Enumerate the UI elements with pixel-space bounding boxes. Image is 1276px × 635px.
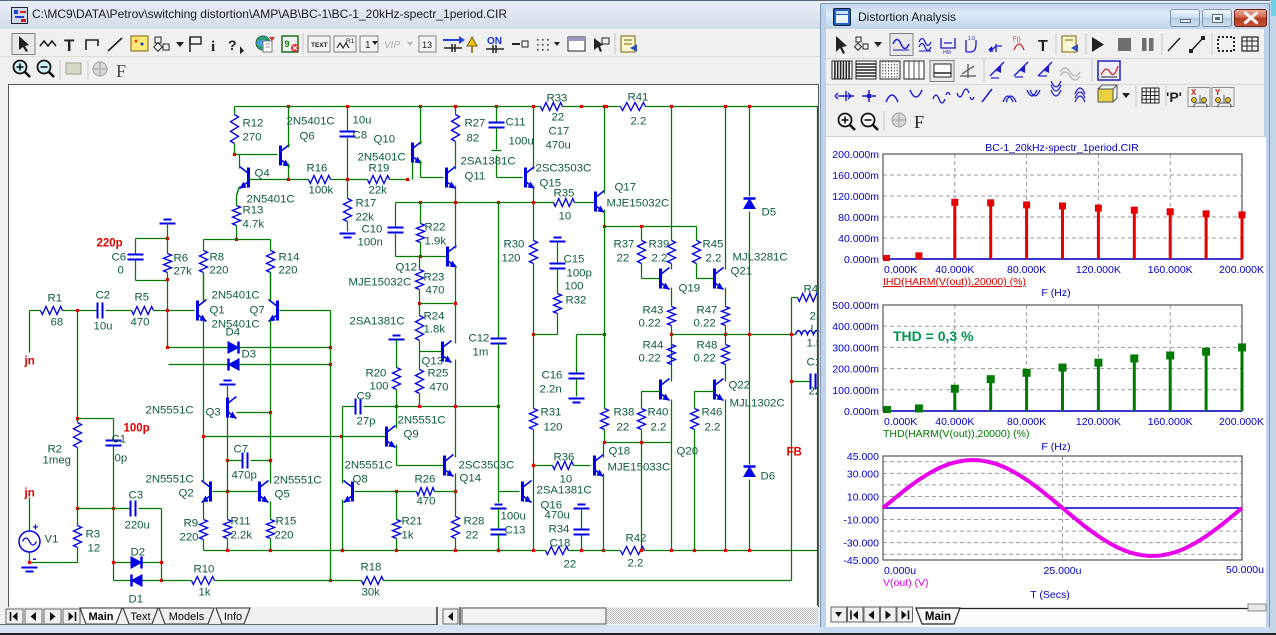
svg-text:Y: Y [1215, 88, 1221, 97]
svg-text:VIP: VIP [384, 40, 400, 51]
svg-text:Models: Models [169, 611, 205, 623]
svg-text:9: 9 [285, 39, 290, 49]
svg-text:HM: HM [943, 50, 951, 56]
svg-text:Info: Info [224, 611, 242, 623]
svg-text:1.0: 1.0 [968, 36, 975, 42]
svg-text:R1: R1 [346, 38, 355, 45]
svg-text:F: F [116, 61, 126, 81]
svg-text:F: F [914, 112, 924, 132]
svg-text:i: i [211, 39, 215, 55]
svg-text:F(): F() [1013, 37, 1021, 43]
svg-text:Text: Text [130, 611, 150, 623]
svg-text:13: 13 [422, 40, 432, 50]
svg-text:1: 1 [365, 40, 371, 51]
svg-text:Main: Main [88, 611, 113, 623]
svg-text:Main: Main [925, 611, 951, 623]
svg-text:T: T [64, 36, 75, 55]
svg-text:ON: ON [487, 36, 502, 47]
svg-text:T: T [1038, 38, 1048, 55]
svg-text:TEXT: TEXT [311, 42, 328, 49]
svg-text:'P': 'P' [1166, 89, 1182, 105]
svg-text:?: ? [228, 37, 237, 53]
svg-text:X: X [1191, 88, 1197, 97]
